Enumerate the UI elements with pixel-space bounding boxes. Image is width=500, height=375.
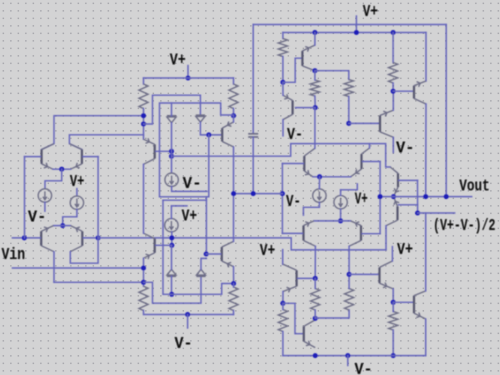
svg-text:V+: V+ bbox=[182, 208, 198, 226]
wire Q17 collector down bbox=[282, 292, 284, 304]
wire Q20 base lead bbox=[393, 301, 414, 303]
node R8 bottom junction bbox=[391, 89, 396, 94]
node R9 top junction bbox=[280, 301, 285, 306]
wire y156 line east bbox=[172, 144, 391, 167]
wire D1 top stem bbox=[171, 103, 173, 116]
wire Q18 collector up bbox=[314, 318, 316, 320]
resistor R3 bbox=[139, 286, 148, 310]
node right bottom emitter junction bbox=[338, 218, 343, 223]
wire D1 bottom stem bbox=[171, 123, 173, 173]
wire R1 stems bbox=[143, 78, 145, 84]
wire Q3 base lead and Vin stub bbox=[12, 237, 40, 239]
wire Q12 base lead bbox=[393, 90, 414, 92]
wire Q11 emitter up bbox=[392, 91, 394, 110]
resistor R2 bbox=[229, 84, 238, 109]
node QR2 base junction bbox=[204, 252, 209, 257]
wire center column x207 bbox=[206, 135, 208, 254]
transistor Q19 bbox=[380, 261, 394, 289]
wire Q13 base lead bbox=[282, 163, 303, 165]
current source I3 bbox=[165, 173, 178, 186]
wire Q10 base lead bbox=[296, 107, 316, 109]
wire R12 bottom stem bbox=[392, 330, 394, 356]
transistor Q5 deck bbox=[144, 139, 155, 164]
node Vout feedback junction bbox=[444, 194, 449, 199]
node rail V- junction bbox=[345, 353, 350, 358]
wire R10 bottom stem bbox=[314, 310, 316, 318]
wire bias column x282 bbox=[281, 164, 283, 234]
node rail-R8 junction bbox=[391, 30, 396, 35]
wire Q9 emitter up bbox=[314, 33, 316, 46]
wire Q1 collector to node A bbox=[42, 116, 144, 150]
capacitor C1 bbox=[248, 134, 258, 137]
node rail-V+ junction bbox=[354, 30, 359, 35]
transistor Q7 deck bbox=[144, 233, 155, 258]
node R1 wire-A junction bbox=[141, 122, 146, 127]
wire Q5-Q7 collector column bbox=[143, 164, 145, 233]
wire inner rail left drop bbox=[282, 33, 284, 39]
node rail-Q9 junction bbox=[312, 30, 317, 35]
node right base junction bbox=[96, 235, 101, 240]
wire I4 bottom lead bbox=[171, 232, 173, 245]
transistor Q8 deck bbox=[222, 241, 234, 266]
resistor R8 bbox=[389, 63, 398, 84]
wire Q14 base lead bbox=[363, 161, 381, 163]
wire B long loop bbox=[160, 103, 234, 197]
node R10 bottom junction bbox=[313, 316, 318, 321]
node R11 top junction bbox=[347, 272, 352, 277]
svg-text:V+: V+ bbox=[260, 242, 276, 260]
wire Q3 collector down bbox=[53, 252, 55, 283]
wire I2 top stub bbox=[76, 189, 78, 196]
wire Q16 base lead bbox=[362, 233, 380, 235]
wire Q6 emitter stem bbox=[233, 116, 235, 122]
resistor R1 bbox=[139, 84, 148, 109]
svg-text:V-: V- bbox=[183, 175, 202, 193]
svg-text:V-: V- bbox=[287, 126, 303, 144]
transistor Q3 bbox=[41, 226, 54, 252]
wire R8 bottom stem bbox=[392, 83, 394, 91]
current source I4 bbox=[165, 219, 178, 232]
wire Q6 collector down to bias bbox=[233, 147, 235, 194]
resistor R11 bbox=[345, 289, 354, 311]
wire bottom emitters join bbox=[314, 220, 351, 222]
wire D3 bottom stem bbox=[171, 276, 173, 294]
wire R7 bottom stem bbox=[348, 97, 350, 124]
wire Vout line bbox=[380, 196, 472, 198]
wire Q14 base down to Vout node bbox=[379, 162, 381, 197]
wire Q16 base up to Vout node bbox=[379, 197, 381, 234]
node D2-column junction bbox=[206, 132, 211, 137]
node R12 rail junction bbox=[391, 353, 396, 358]
wire I5 bottom stub bbox=[303, 203, 319, 216]
wire D4 top stem bbox=[201, 258, 206, 269]
resistor R7 bbox=[344, 80, 353, 97]
wire Q18 base path bbox=[283, 303, 303, 333]
wire Q4 collector loop bbox=[70, 238, 98, 263]
diode D3 bbox=[167, 275, 176, 277]
node Vin junction bbox=[22, 235, 27, 240]
transistor Q22 bbox=[386, 197, 398, 226]
node y156 junction bbox=[169, 154, 174, 159]
wire Q22 base lead bbox=[399, 204, 418, 206]
svg-text:Vin: Vin bbox=[2, 246, 26, 264]
wire Q3 collector line east bbox=[54, 281, 144, 283]
wire outer feedback rail bbox=[253, 24, 446, 26]
wire inner V+ rail bbox=[283, 32, 426, 34]
wire I1 bottom stub bbox=[44, 202, 46, 211]
transistor Q17 bbox=[283, 264, 297, 291]
wire B2 loop vertical bbox=[163, 200, 234, 294]
wire Q15 base lead bbox=[282, 232, 302, 234]
resistor R6 bbox=[310, 80, 319, 96]
resistor R4 bbox=[229, 287, 238, 311]
wire R11 top stem bbox=[348, 274, 350, 288]
wire outer rail left drop bbox=[252, 25, 254, 134]
transistor Q15 bbox=[304, 221, 316, 246]
wire I6 bottom lead bbox=[340, 209, 342, 221]
wire R4 stems bbox=[233, 284, 235, 288]
wire R9 bottom stem bbox=[282, 332, 284, 356]
wire Q12 collector down bbox=[425, 104, 427, 197]
wire emitter node to I1 bbox=[45, 169, 62, 189]
wire V+ stub for Q17 bbox=[282, 250, 284, 265]
wire V- stub bottom deck bbox=[187, 315, 189, 329]
node bias east junction bbox=[280, 191, 285, 196]
wire B2 loop bottom bbox=[163, 199, 206, 201]
wire R10 stems bbox=[314, 278, 316, 288]
node R4 top junction bbox=[231, 281, 236, 286]
wire right bases vertical bbox=[97, 157, 99, 238]
node output emitter junction bbox=[391, 194, 396, 199]
wire Q15 collector down bbox=[314, 246, 316, 278]
current source I5 bbox=[313, 189, 326, 202]
wire top emitters join bbox=[53, 168, 71, 170]
node QL2 base junction bbox=[169, 243, 174, 248]
wire I6 top stub bbox=[341, 184, 358, 190]
transistor Q10 bbox=[283, 95, 293, 119]
wire I4 top stub bbox=[170, 206, 172, 219]
transistor Q21 bbox=[390, 167, 398, 197]
wire bottom emitters join bbox=[54, 225, 71, 227]
transistor Q20 bbox=[414, 291, 426, 319]
diode D4 bbox=[196, 275, 205, 277]
wire Q8 emitter stem bbox=[233, 267, 235, 284]
wire I2 bottom to bottom emitter node bbox=[63, 209, 77, 225]
wire D3 top stem bbox=[171, 245, 173, 269]
wire R2 stems bbox=[233, 78, 235, 84]
diode D2 bbox=[196, 114, 205, 116]
node long line - I4 junction bbox=[169, 235, 174, 240]
wire right emitters join bbox=[313, 176, 351, 178]
wire R11 link bbox=[315, 310, 349, 318]
wire Vin line east bbox=[12, 267, 143, 269]
wire A to diode D2 top bbox=[144, 95, 201, 124]
transistor Q6 deck bbox=[222, 122, 233, 147]
wire Q2 collector to node B bbox=[69, 135, 143, 150]
node top emitter junction bbox=[59, 167, 64, 172]
wire R4 bottom stem bbox=[233, 311, 235, 315]
svg-text:Vout: Vout bbox=[459, 178, 490, 196]
resistor R9 bbox=[278, 310, 287, 332]
transistor Q13 bbox=[304, 148, 315, 177]
svg-text:V-: V- bbox=[355, 361, 373, 375]
current source I2 bbox=[70, 196, 83, 209]
node R5 bottom junction bbox=[280, 80, 285, 85]
wire Q21 base lead bbox=[399, 179, 418, 181]
wire Q9 base path bbox=[283, 58, 302, 82]
wire I3 bottom lead bbox=[172, 187, 207, 192]
node D3 wire junction bbox=[169, 292, 174, 297]
wire R9 stems bbox=[282, 303, 284, 309]
transistor Q4 bbox=[70, 226, 82, 252]
wire V+ stub top deck bbox=[187, 66, 189, 79]
wire Q13 emitter collector up bbox=[314, 108, 316, 149]
wire V- stub bottom rail bbox=[347, 356, 349, 366]
wire R1 bottom stem bbox=[143, 109, 145, 140]
wire bases column x417 bbox=[417, 180, 419, 213]
wire R12 stems bbox=[392, 302, 394, 311]
wire Q22 collector down bbox=[385, 226, 387, 250]
node bottom emitter junction bbox=[60, 223, 65, 228]
node bias cap junction bbox=[251, 191, 256, 196]
wire Q11 collector stub bbox=[392, 137, 394, 152]
wire Q19 collector down bbox=[392, 289, 394, 302]
node Q5 base junction bbox=[169, 149, 174, 154]
diode D1 bbox=[167, 115, 176, 117]
transistor Q14 bbox=[351, 148, 370, 177]
wire Q20 emitter up bbox=[425, 213, 427, 291]
svg-text:(V+-V-)/2: (V+-V-)/2 bbox=[433, 217, 496, 235]
node Q20 base junction bbox=[391, 300, 396, 305]
wire R6 bottom stem bbox=[314, 96, 316, 108]
node R1 collector-A junction bbox=[141, 113, 146, 118]
wire Q14 collector up bbox=[369, 144, 371, 148]
svg-text:V-: V- bbox=[175, 335, 193, 353]
wire I5 top lead bbox=[318, 177, 320, 189]
transistor Q9 bbox=[302, 45, 315, 71]
node R6 bottom junction bbox=[313, 105, 318, 110]
node right top emitter junction bbox=[317, 174, 322, 179]
wire cap bottom to bias bbox=[252, 137, 254, 194]
svg-text:V-: V- bbox=[396, 139, 415, 157]
current source I1 bbox=[38, 189, 51, 202]
node R7 bottom junction bbox=[346, 121, 351, 126]
node Q9 collector junction bbox=[312, 68, 317, 73]
wire y70 east bbox=[315, 71, 349, 80]
wire Q10 collector stub bbox=[282, 120, 284, 136]
resistor R10 bbox=[311, 289, 320, 311]
wire Q20 collector to rail bbox=[425, 319, 427, 356]
transistor Q11 bbox=[380, 110, 393, 137]
resistor R12 bbox=[389, 312, 398, 331]
node Vout Q14 junction bbox=[378, 194, 383, 199]
wire Q7 base lead bbox=[156, 244, 172, 246]
wire I6 top lead bbox=[340, 190, 342, 196]
wire midpoint line bbox=[418, 212, 455, 214]
wire V+ stub Q19 bbox=[391, 247, 393, 261]
node bias Q6 junction bbox=[231, 191, 236, 196]
wire V+ stub bbox=[355, 16, 357, 33]
transistor Q16 bbox=[349, 221, 361, 246]
wire Q11 base lead bbox=[349, 122, 380, 124]
wire bottom V- rail bbox=[283, 355, 426, 357]
transistor Q1 bbox=[42, 144, 54, 170]
wire R2 bottom stem bbox=[233, 109, 235, 116]
wire R6 stems bbox=[314, 71, 316, 80]
node V- rail junction bbox=[185, 312, 190, 317]
node Q17 base junction bbox=[313, 276, 318, 281]
wire Q16 collector down bbox=[348, 246, 350, 274]
wire Q10 emitter up bbox=[282, 82, 284, 95]
node rail Q18 junction bbox=[313, 353, 318, 358]
node midpoint junction bbox=[415, 211, 420, 216]
current source I6 bbox=[334, 196, 347, 209]
wire I4 top stub horiz bbox=[171, 205, 187, 207]
wire R8 top stem bbox=[392, 33, 394, 63]
wire Q5 base lead bbox=[156, 150, 172, 152]
wire Q1 base lead bbox=[25, 156, 41, 158]
resistor R5 bbox=[278, 39, 287, 57]
wire A2 to diode D4 bbox=[144, 276, 202, 303]
wire Q8 base lead bbox=[206, 253, 221, 255]
transistor Q2 bbox=[69, 144, 82, 170]
node Vin-line junction bbox=[141, 266, 146, 271]
wire R3 bottom stem bbox=[144, 311, 234, 315]
wire bias line bbox=[234, 193, 283, 195]
transistor Q18 bbox=[304, 320, 315, 348]
svg-text:V-: V- bbox=[286, 193, 301, 211]
svg-text:V+: V+ bbox=[170, 52, 186, 70]
wire input node line east (long) bbox=[98, 238, 386, 250]
svg-text:V-: V- bbox=[28, 209, 47, 227]
svg-text:V+: V+ bbox=[363, 3, 378, 21]
node wireA2 junction bbox=[141, 280, 146, 285]
wire D2 bottom stem bbox=[200, 122, 221, 135]
svg-text:V+: V+ bbox=[397, 241, 413, 259]
node R2 bottom junction bbox=[231, 113, 236, 118]
svg-text:V+: V+ bbox=[355, 191, 368, 209]
wire top deck rail bbox=[144, 77, 234, 79]
wire outer rail right drop bbox=[445, 25, 447, 197]
wire left bases vertical bbox=[24, 157, 26, 238]
wire R5 bottom stem bbox=[282, 57, 284, 83]
node Vout Q12 junction bbox=[423, 194, 428, 199]
wire inner rail right drop bbox=[425, 33, 427, 82]
transistor Q12 bbox=[414, 81, 426, 104]
wire Q2 base lead bbox=[83, 156, 98, 158]
node V+ rail junction bbox=[186, 76, 191, 81]
wire Q8 collector up to bias bbox=[233, 194, 235, 242]
wire Q4 base lead bbox=[83, 237, 98, 239]
wire Q7 emitter stem bbox=[143, 258, 145, 286]
wire Q17 base lead bbox=[298, 277, 316, 279]
wire Q19 base lead bbox=[349, 273, 379, 275]
